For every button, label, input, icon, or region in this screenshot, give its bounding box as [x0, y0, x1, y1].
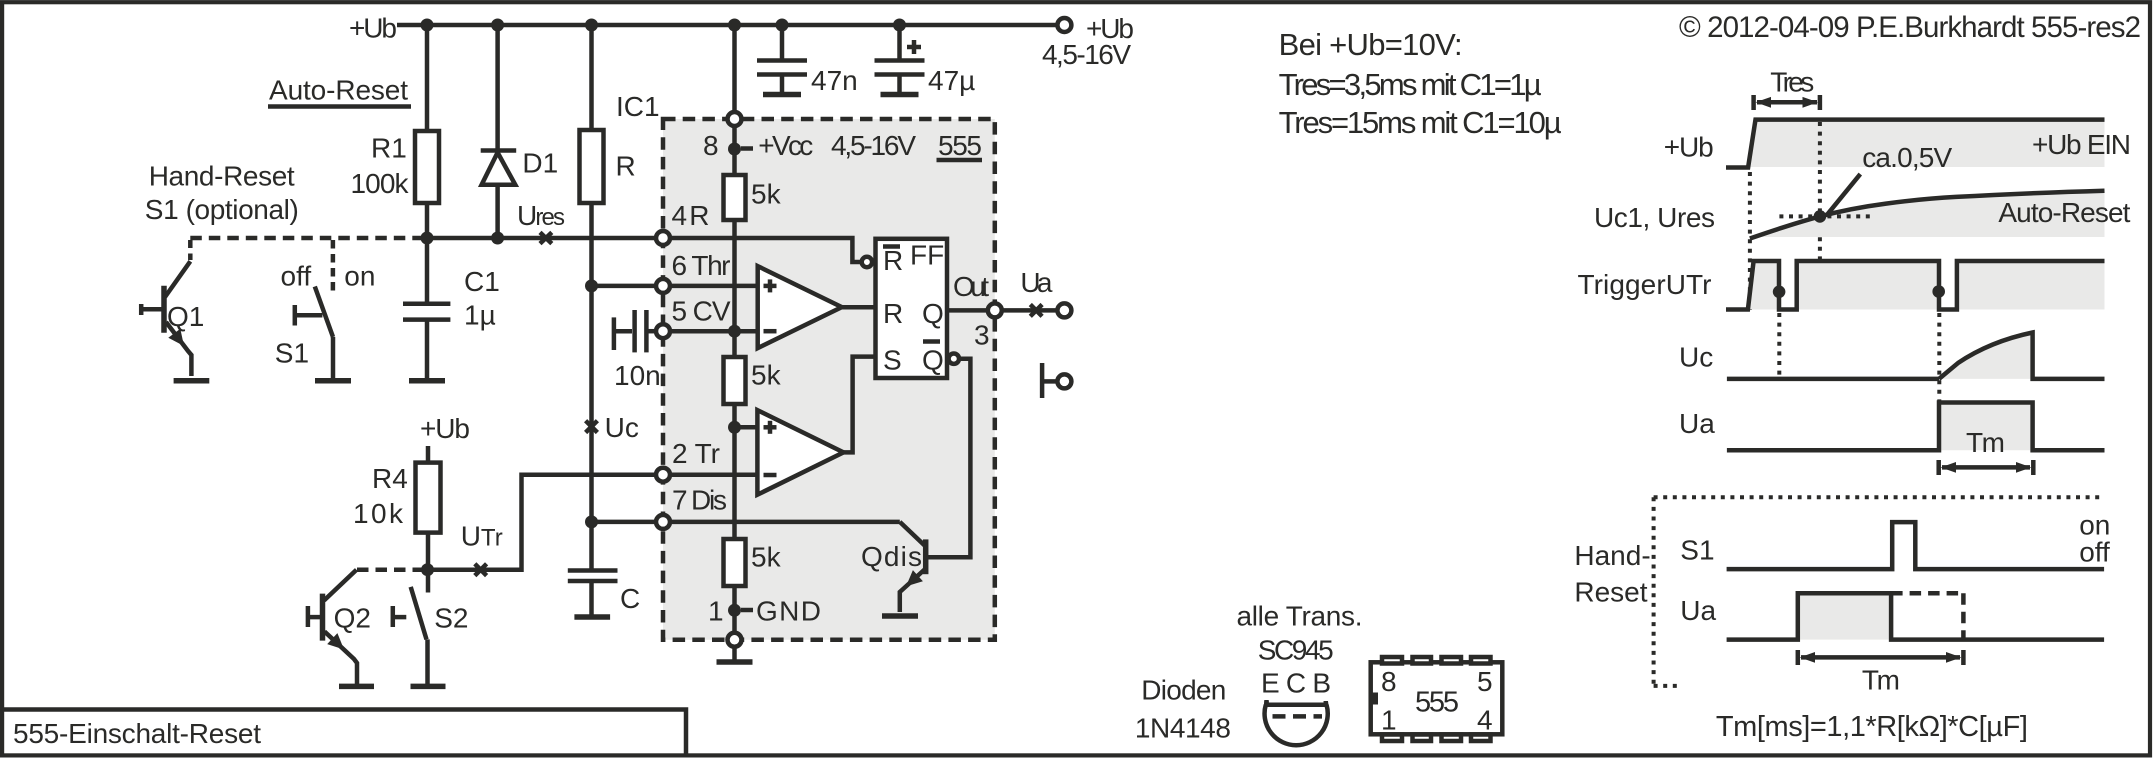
- junction R/rail: [585, 19, 598, 32]
- svg-text:Q: Q: [922, 345, 944, 376]
- pin 6 Thr circle: [656, 279, 670, 293]
- timing trigger dot 1: [1773, 286, 1786, 299]
- FF Qbar inversion bubble: [949, 354, 959, 364]
- ground Q1: [174, 378, 210, 384]
- svg-text:10n: 10n: [614, 360, 661, 391]
- transistor package TO-92 SC945: [1264, 701, 1328, 745]
- +Ub power rail: [397, 23, 1058, 28]
- svg-text:10k: 10k: [353, 498, 404, 529]
- svg-text:Tm: Tm: [1862, 665, 1900, 696]
- svg-text:47n: 47n: [811, 65, 858, 96]
- junction comp2 plus: [728, 421, 741, 434]
- annotation Bei +Ub=10V: [1279, 27, 1562, 140]
- svg-text:555: 555: [938, 130, 982, 161]
- pin 1 GND labels: [708, 596, 821, 627]
- svg-text:1: 1: [1381, 705, 1397, 736]
- transistor Q2: [308, 570, 371, 684]
- ground S2: [411, 684, 446, 690]
- svg-text:UTr: UTr: [461, 521, 503, 552]
- timing dotted rise marker: [1748, 172, 1752, 310]
- pin 7 Dis circle: [656, 515, 670, 529]
- wire comp2 out to FF S: [844, 357, 876, 453]
- svg-text:8: 8: [703, 130, 719, 161]
- node Ua measure point: [1020, 267, 1052, 316]
- wire dashed Q2 collector: [357, 567, 425, 572]
- svg-text:47µ: 47µ: [928, 65, 975, 96]
- svg-text:R: R: [883, 298, 903, 329]
- svg-text:Tres=15ms mit C1=10µ: Tres=15ms mit C1=10µ: [1279, 105, 1562, 140]
- transistor Q1: [141, 240, 204, 376]
- svg-text:Reset: Reset: [1574, 577, 1647, 608]
- node UTr measure point: [461, 521, 503, 576]
- svg-text:S1 (optional): S1 (optional): [145, 194, 299, 225]
- resistor 5k middle: [724, 357, 782, 404]
- wire pin6 to comp1: [670, 284, 758, 289]
- junction D1/rail: [491, 19, 504, 32]
- svg-text:on: on: [344, 261, 375, 292]
- wire divider 5k2-5k3: [732, 404, 737, 539]
- junction R1/rail: [421, 19, 434, 32]
- svg-text:4,5-16V: 4,5-16V: [1042, 39, 1131, 70]
- svg-text:+Ub: +Ub: [1664, 132, 1714, 163]
- svg-text:S2: S2: [434, 603, 468, 634]
- pin 4 R circle: [656, 231, 670, 245]
- junction pin6 external: [585, 279, 598, 292]
- capacitor 47u polarized: [875, 25, 976, 96]
- svg-text:ca.0,5V: ca.0,5V: [1862, 142, 1952, 173]
- svg-text:E C B: E C B: [1261, 668, 1331, 699]
- svg-text:Q1: Q1: [167, 301, 204, 332]
- svg-text:R4: R4: [372, 463, 408, 494]
- wire pin7 external: [592, 520, 657, 525]
- svg-text:GND: GND: [756, 596, 821, 627]
- svg-text:2 Tr: 2 Tr: [672, 438, 720, 469]
- timing Uc waveform: [1679, 333, 2105, 379]
- wire pin5 to comp1: [670, 329, 758, 334]
- svg-text:1µ: 1µ: [464, 300, 496, 331]
- junction R4/S2/UTr: [421, 563, 434, 576]
- ground S1: [315, 378, 351, 384]
- svg-text:R: R: [883, 245, 903, 276]
- wire pin4 to FF Rbar: [670, 238, 862, 262]
- svg-text:5: 5: [1477, 666, 1493, 697]
- flip-flop FF: [876, 239, 948, 378]
- output 0V terminal: [1042, 363, 1071, 398]
- svg-text:Hand-: Hand-: [1574, 540, 1650, 571]
- wire pin6 external: [592, 284, 657, 289]
- junction CV divider: [728, 325, 741, 338]
- svg-text:Auto-Reset: Auto-Reset: [1998, 197, 2130, 228]
- svg-text:1: 1: [708, 596, 724, 627]
- junction pin7 external: [585, 515, 598, 528]
- IC package DIP-8 555: [1371, 657, 1503, 741]
- wire Qbar to Qdis base: [928, 359, 971, 558]
- switch S1: [275, 240, 376, 379]
- wire FF Q to pin3: [947, 308, 988, 313]
- timing +Ub waveform: [1664, 120, 2131, 168]
- output Ua terminal: [1057, 303, 1071, 317]
- pin 1 circle: [728, 633, 742, 647]
- timing Tm arrow hand: [1798, 650, 1964, 696]
- svg-text:SC945: SC945: [1258, 635, 1334, 666]
- svg-text:R: R: [616, 151, 636, 182]
- svg-text:IC1: IC1: [616, 91, 660, 122]
- ground Q2: [339, 684, 374, 690]
- wire comp1 out to FF: [842, 305, 876, 310]
- pin 2 Tr circle: [656, 468, 670, 482]
- svg-text:6 Thr: 6 Thr: [672, 250, 731, 281]
- FF Rbar inversion bubble: [862, 257, 872, 267]
- svg-text:S1: S1: [275, 338, 309, 369]
- svg-text:555-Einschalt-Reset: 555-Einschalt-Reset: [13, 718, 261, 749]
- wire pin7 to Qdis: [670, 522, 926, 547]
- timing S1 waveform: [1680, 510, 2110, 570]
- pin 3 Out circle: [988, 303, 1002, 317]
- junction 47u/rail: [893, 19, 906, 32]
- svg-text:Ua: Ua: [1679, 408, 1715, 439]
- svg-text:R1: R1: [371, 133, 407, 164]
- svg-text:5k: 5k: [751, 542, 782, 573]
- title box: [2, 710, 686, 757]
- resistor R (timing): [580, 25, 636, 203]
- wire dashed hand-reset rail: [190, 236, 424, 241]
- alle Trans. SC945 label: [1237, 601, 1363, 699]
- junction D1/rail: [491, 232, 504, 245]
- svg-text:4 R: 4 R: [672, 200, 710, 231]
- pin 5 CV circle: [656, 324, 670, 338]
- wire UTr to pin2: [428, 475, 657, 570]
- svg-text:S: S: [883, 345, 902, 376]
- output Ua wire: [1001, 308, 1058, 313]
- svg-text:5k: 5k: [751, 360, 782, 391]
- svg-text:Out: Out: [953, 271, 989, 302]
- 555 header labels: [703, 130, 982, 161]
- switch S2: [393, 587, 469, 684]
- timing dotted Tres end marker: [1818, 122, 1822, 308]
- junction 47n/rail: [776, 19, 789, 32]
- timing Tm arrow auto: [1939, 460, 2034, 475]
- svg-text:Hand-Reset: Hand-Reset: [149, 161, 295, 192]
- IC1 555 box: [616, 91, 995, 640]
- svg-text:off: off: [2079, 537, 2110, 568]
- svg-text:1N4148: 1N4148: [1135, 713, 1231, 744]
- capacitor C1: [403, 238, 500, 331]
- resistor 5k top: [724, 175, 782, 220]
- svg-text:Ures: Ures: [517, 200, 565, 231]
- svg-text:3: 3: [974, 320, 990, 351]
- pin 8 circle: [728, 112, 742, 126]
- ground C: [574, 581, 610, 617]
- diode D1: [481, 25, 558, 238]
- svg-text:Uc1, Ures: Uc1, Ures: [1594, 202, 1715, 233]
- svg-text:D1: D1: [522, 148, 558, 179]
- svg-text:4,5-16V: 4,5-16V: [831, 130, 916, 161]
- svg-text:C: C: [620, 583, 640, 614]
- junction pin8: [728, 143, 741, 156]
- ground C1: [409, 320, 445, 381]
- resistor R1: [351, 25, 440, 238]
- svg-text:off: off: [281, 261, 312, 292]
- timing dotted trigger marker 2: [1937, 313, 1941, 401]
- svg-text:Auto-Reset: Auto-Reset: [269, 75, 408, 106]
- capacitor 10n: [614, 310, 661, 391]
- ground 47n: [763, 75, 801, 95]
- svg-text:+Vcc: +Vcc: [758, 130, 813, 161]
- timing TriggerUTr waveform: [1578, 261, 2105, 310]
- ground 47u: [881, 75, 919, 95]
- svg-text:8: 8: [1381, 666, 1397, 697]
- op-amp comparator 2: [757, 410, 843, 495]
- op-amp comparator 1: [758, 266, 842, 348]
- svg-text:Bei +Ub=10V:: Bei +Ub=10V:: [1279, 27, 1463, 62]
- svg-text:Uc: Uc: [605, 412, 639, 443]
- svg-text:100k: 100k: [351, 168, 410, 199]
- svg-text:+Ub: +Ub: [349, 13, 397, 44]
- ground Qdis: [882, 613, 918, 619]
- wire 5k3 to GND: [732, 586, 737, 633]
- svg-text:Q2: Q2: [334, 603, 371, 634]
- svg-text:© 2012-04-09 P.E.Burkhardt 555: © 2012-04-09 P.E.Burkhardt 555-res2: [1679, 11, 2141, 44]
- capacitor C: [568, 571, 640, 615]
- svg-text:Ua: Ua: [1020, 267, 1052, 298]
- svg-text:Ua: Ua: [1680, 595, 1716, 626]
- timing Ua hand waveform: [1680, 593, 2104, 639]
- svg-text:555: 555: [1415, 687, 1459, 719]
- +Ub supply terminal: [1042, 13, 1134, 70]
- svg-text:alle Trans.: alle Trans.: [1237, 601, 1363, 632]
- svg-text:5k: 5k: [751, 179, 782, 210]
- svg-text:+Ub: +Ub: [420, 413, 470, 444]
- Hand-Reset label: [145, 161, 299, 226]
- svg-text:Tres=3,5ms mit C1=1µ: Tres=3,5ms mit C1=1µ: [1279, 67, 1542, 102]
- timing Ua waveform: [1679, 403, 2105, 459]
- node Uc measure point: [586, 412, 639, 443]
- Hand-Reset dotted box: [1574, 497, 2102, 686]
- svg-text:Tm[ms]=1,1*R[kΩ]*C[µF]: Tm[ms]=1,1*R[kΩ]*C[µF]: [1716, 711, 2028, 743]
- node Ures measure point: [517, 200, 565, 244]
- wire pin2 to comp2 minus: [670, 472, 758, 477]
- svg-text:5 CV: 5 CV: [672, 296, 731, 327]
- Dioden 1N4148 label: [1135, 675, 1231, 744]
- svg-text:Tres: Tres: [1770, 67, 1814, 98]
- timing dotted trigger marker 1: [1777, 313, 1781, 378]
- svg-text:Dioden: Dioden: [1141, 675, 1226, 706]
- svg-text:4: 4: [1477, 705, 1493, 736]
- svg-text:7 Dis: 7 Dis: [672, 485, 727, 516]
- timing Tres arrow: [1754, 67, 1820, 111]
- svg-text:Qdis: Qdis: [861, 541, 922, 572]
- timing ca.0,5V callout: [1779, 142, 1952, 223]
- junction GND pin1: [728, 604, 741, 617]
- svg-text:C1: C1: [464, 266, 500, 297]
- junction R1/C1/rail: [421, 232, 434, 245]
- resistor 5k bottom: [724, 539, 782, 586]
- wire divider 5k1-5k2: [732, 220, 737, 357]
- wire divider to comp2 plus: [735, 425, 758, 430]
- wire pin8 to divider: [732, 126, 737, 175]
- wire R chain down to C: [589, 203, 594, 571]
- junction IC pin8/rail: [728, 19, 741, 32]
- capacitor 47n: [757, 25, 858, 96]
- svg-text:Tm: Tm: [1966, 427, 2005, 458]
- svg-text:S1: S1: [1680, 535, 1714, 566]
- svg-text:Uc: Uc: [1679, 342, 1713, 373]
- pin 8 wire from rail: [732, 25, 737, 113]
- timing Ures curve: [1594, 191, 2131, 239]
- svg-text:Q: Q: [922, 298, 944, 329]
- timing trigger dot 2: [1932, 285, 1945, 298]
- svg-text:FF: FF: [910, 240, 944, 271]
- svg-text:+Ub EIN: +Ub EIN: [2032, 129, 2131, 160]
- resistor R4: [353, 446, 441, 593]
- node Ures rail: [421, 236, 657, 241]
- svg-text:TriggerUTr: TriggerUTr: [1578, 269, 1712, 300]
- ground IC pin1: [717, 646, 753, 662]
- Auto-Reset label: [268, 75, 411, 107]
- transistor Qdis: [861, 539, 926, 612]
- transistor package TO-92: [1264, 700, 1269, 705]
